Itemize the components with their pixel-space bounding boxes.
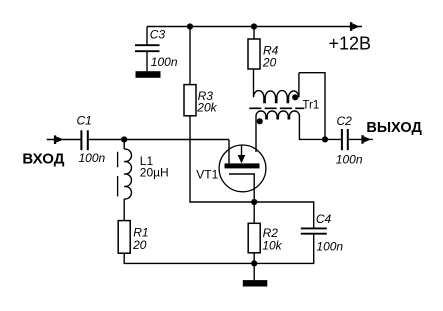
inductor L1 [124,149,131,199]
wire L1 stem [123,140,125,150]
wire C4 bottom [254,235,314,264]
ground chassis C3 [136,71,161,78]
resistor R1 [118,221,130,254]
wire output line [325,138,342,140]
resistor R2 [248,223,260,253]
ground chassis main [243,280,267,286]
polarity dot secondary [257,118,263,124]
output arrow [361,135,371,144]
resistor R4 [248,39,260,69]
node junction rail-R3 [187,23,193,29]
wire L1 to R1 [123,199,125,221]
wire gate line [89,139,229,141]
svg-text:100n: 100n [151,55,178,69]
svg-text:10k: 10k [262,238,282,252]
wire input line [47,139,81,141]
svg-text:100n: 100n [336,153,363,167]
svg-text:+12В: +12В [329,34,372,54]
node junction bottom [251,260,257,266]
polarity dot primary [292,94,298,100]
transformer Tr1 core [249,107,304,109]
wire C3 stem top [146,27,148,46]
node junction output [322,136,328,142]
svg-text:100n: 100n [79,151,106,165]
wire primary right end loop [299,73,325,140]
svg-text:Tr1: Tr1 [302,99,319,111]
wire R3 stem bottom to source line [190,116,254,202]
node A input junction [121,136,127,142]
transformer Tr1 secondary winding [256,111,325,152]
svg-text:20µH: 20µH [140,166,169,180]
svg-text:C1: C1 [77,114,92,128]
capacitor C1 [81,130,87,150]
wire C3 stem bottom [146,52,148,71]
svg-text:C3: C3 [150,28,166,42]
transistor VT1 [219,140,266,203]
resistor R3 [184,85,196,116]
inductor L1 core [117,152,119,197]
capacitor C2 [342,129,348,150]
wire output after C2 [349,138,373,140]
svg-text:20: 20 [262,55,277,69]
capacitor C4 [301,228,327,233]
transformer Tr1 primary winding [254,69,299,103]
svg-text:ВЫХОД: ВЫХОД [366,120,422,136]
svg-text:20: 20 [132,238,147,252]
wire R2 stem top [253,202,255,223]
input arrow [54,135,64,144]
wire R1 bottom [124,253,254,263]
node junction rail-R4 [251,23,257,29]
svg-text:20k: 20k [196,101,217,115]
wire source line to C4 [254,202,314,228]
wire ground stem [253,263,255,280]
svg-text:C4: C4 [316,212,332,226]
power arrow +12V [350,22,360,31]
wire R3 stem top [189,27,191,85]
svg-text:C2: C2 [337,114,353,128]
wire R4 stem top [253,27,255,40]
node junction source [251,199,257,205]
svg-text:100n: 100n [316,239,343,253]
wire R2 stem bottom [253,253,255,264]
svg-text:ВХОД: ВХОД [22,150,64,167]
capacitor C3 [135,45,160,51]
wire top rail +12V [147,26,362,28]
svg-text:VT1: VT1 [196,167,218,181]
